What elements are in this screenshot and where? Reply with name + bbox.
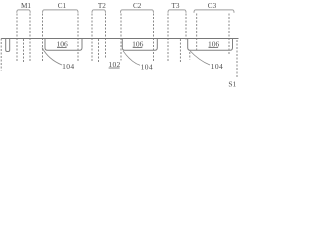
bracket under M1 xyxy=(17,10,30,13)
svg-text:104: 104 xyxy=(211,62,223,71)
substrate surface line xyxy=(1,38,238,40)
narrow trench (left, under M1 area) xyxy=(6,39,10,52)
dashed line T3 mid (below surface) xyxy=(179,39,181,62)
dashed substrate left edge xyxy=(0,39,2,71)
dashed line C2 left xyxy=(120,14,122,61)
dashed line C2 right xyxy=(153,14,155,63)
dashed region boundary lines xyxy=(1,14,237,78)
leader line to 104 (trench C1 liner) xyxy=(42,48,62,66)
svg-text:102: 102 xyxy=(108,60,120,69)
capacitor trench C1 xyxy=(45,39,82,51)
dashed line M1 mid (below surface) xyxy=(23,39,25,62)
bracket under C2 xyxy=(121,10,154,13)
dashed line M1 right xyxy=(29,14,31,63)
dashed line C1 right xyxy=(77,14,79,63)
dashed line T3 right xyxy=(185,14,187,40)
bracket under T2 xyxy=(92,10,106,13)
bracket under C1 xyxy=(43,10,79,13)
leader line to 104 (trench C3 liner) xyxy=(190,50,210,65)
dashed line C1 left xyxy=(42,14,44,63)
svg-text:M1: M1 xyxy=(21,2,31,10)
dashed line C3 right xyxy=(228,14,230,55)
svg-text:T3: T3 xyxy=(172,2,180,10)
svg-text:C1: C1 xyxy=(58,2,67,10)
dashed substrate right edge xyxy=(236,40,238,77)
svg-text:C3: C3 xyxy=(208,2,217,10)
dashed line T2 mid (below surface) xyxy=(98,39,100,62)
svg-text:104: 104 xyxy=(141,63,153,72)
svg-text:S1: S1 xyxy=(228,79,236,88)
svg-text:T2: T2 xyxy=(98,2,106,10)
dashed line T2 left xyxy=(91,14,93,63)
bracket under C3 xyxy=(194,10,234,13)
capacitor trench C3 xyxy=(188,39,233,51)
bracket under T3 xyxy=(168,10,186,13)
dashed line C3 left xyxy=(196,14,198,51)
dashed line T3 left xyxy=(167,14,169,63)
dashed stub below C3 trench wall xyxy=(189,52,191,60)
dashed line M1 left xyxy=(16,14,18,63)
capacitor trench C2 xyxy=(122,39,157,51)
svg-text:C2: C2 xyxy=(133,2,142,10)
svg-text:104: 104 xyxy=(62,62,74,71)
leader line to 104 (trench C2 liner) xyxy=(123,51,140,66)
dashed line T2 right xyxy=(105,14,107,59)
